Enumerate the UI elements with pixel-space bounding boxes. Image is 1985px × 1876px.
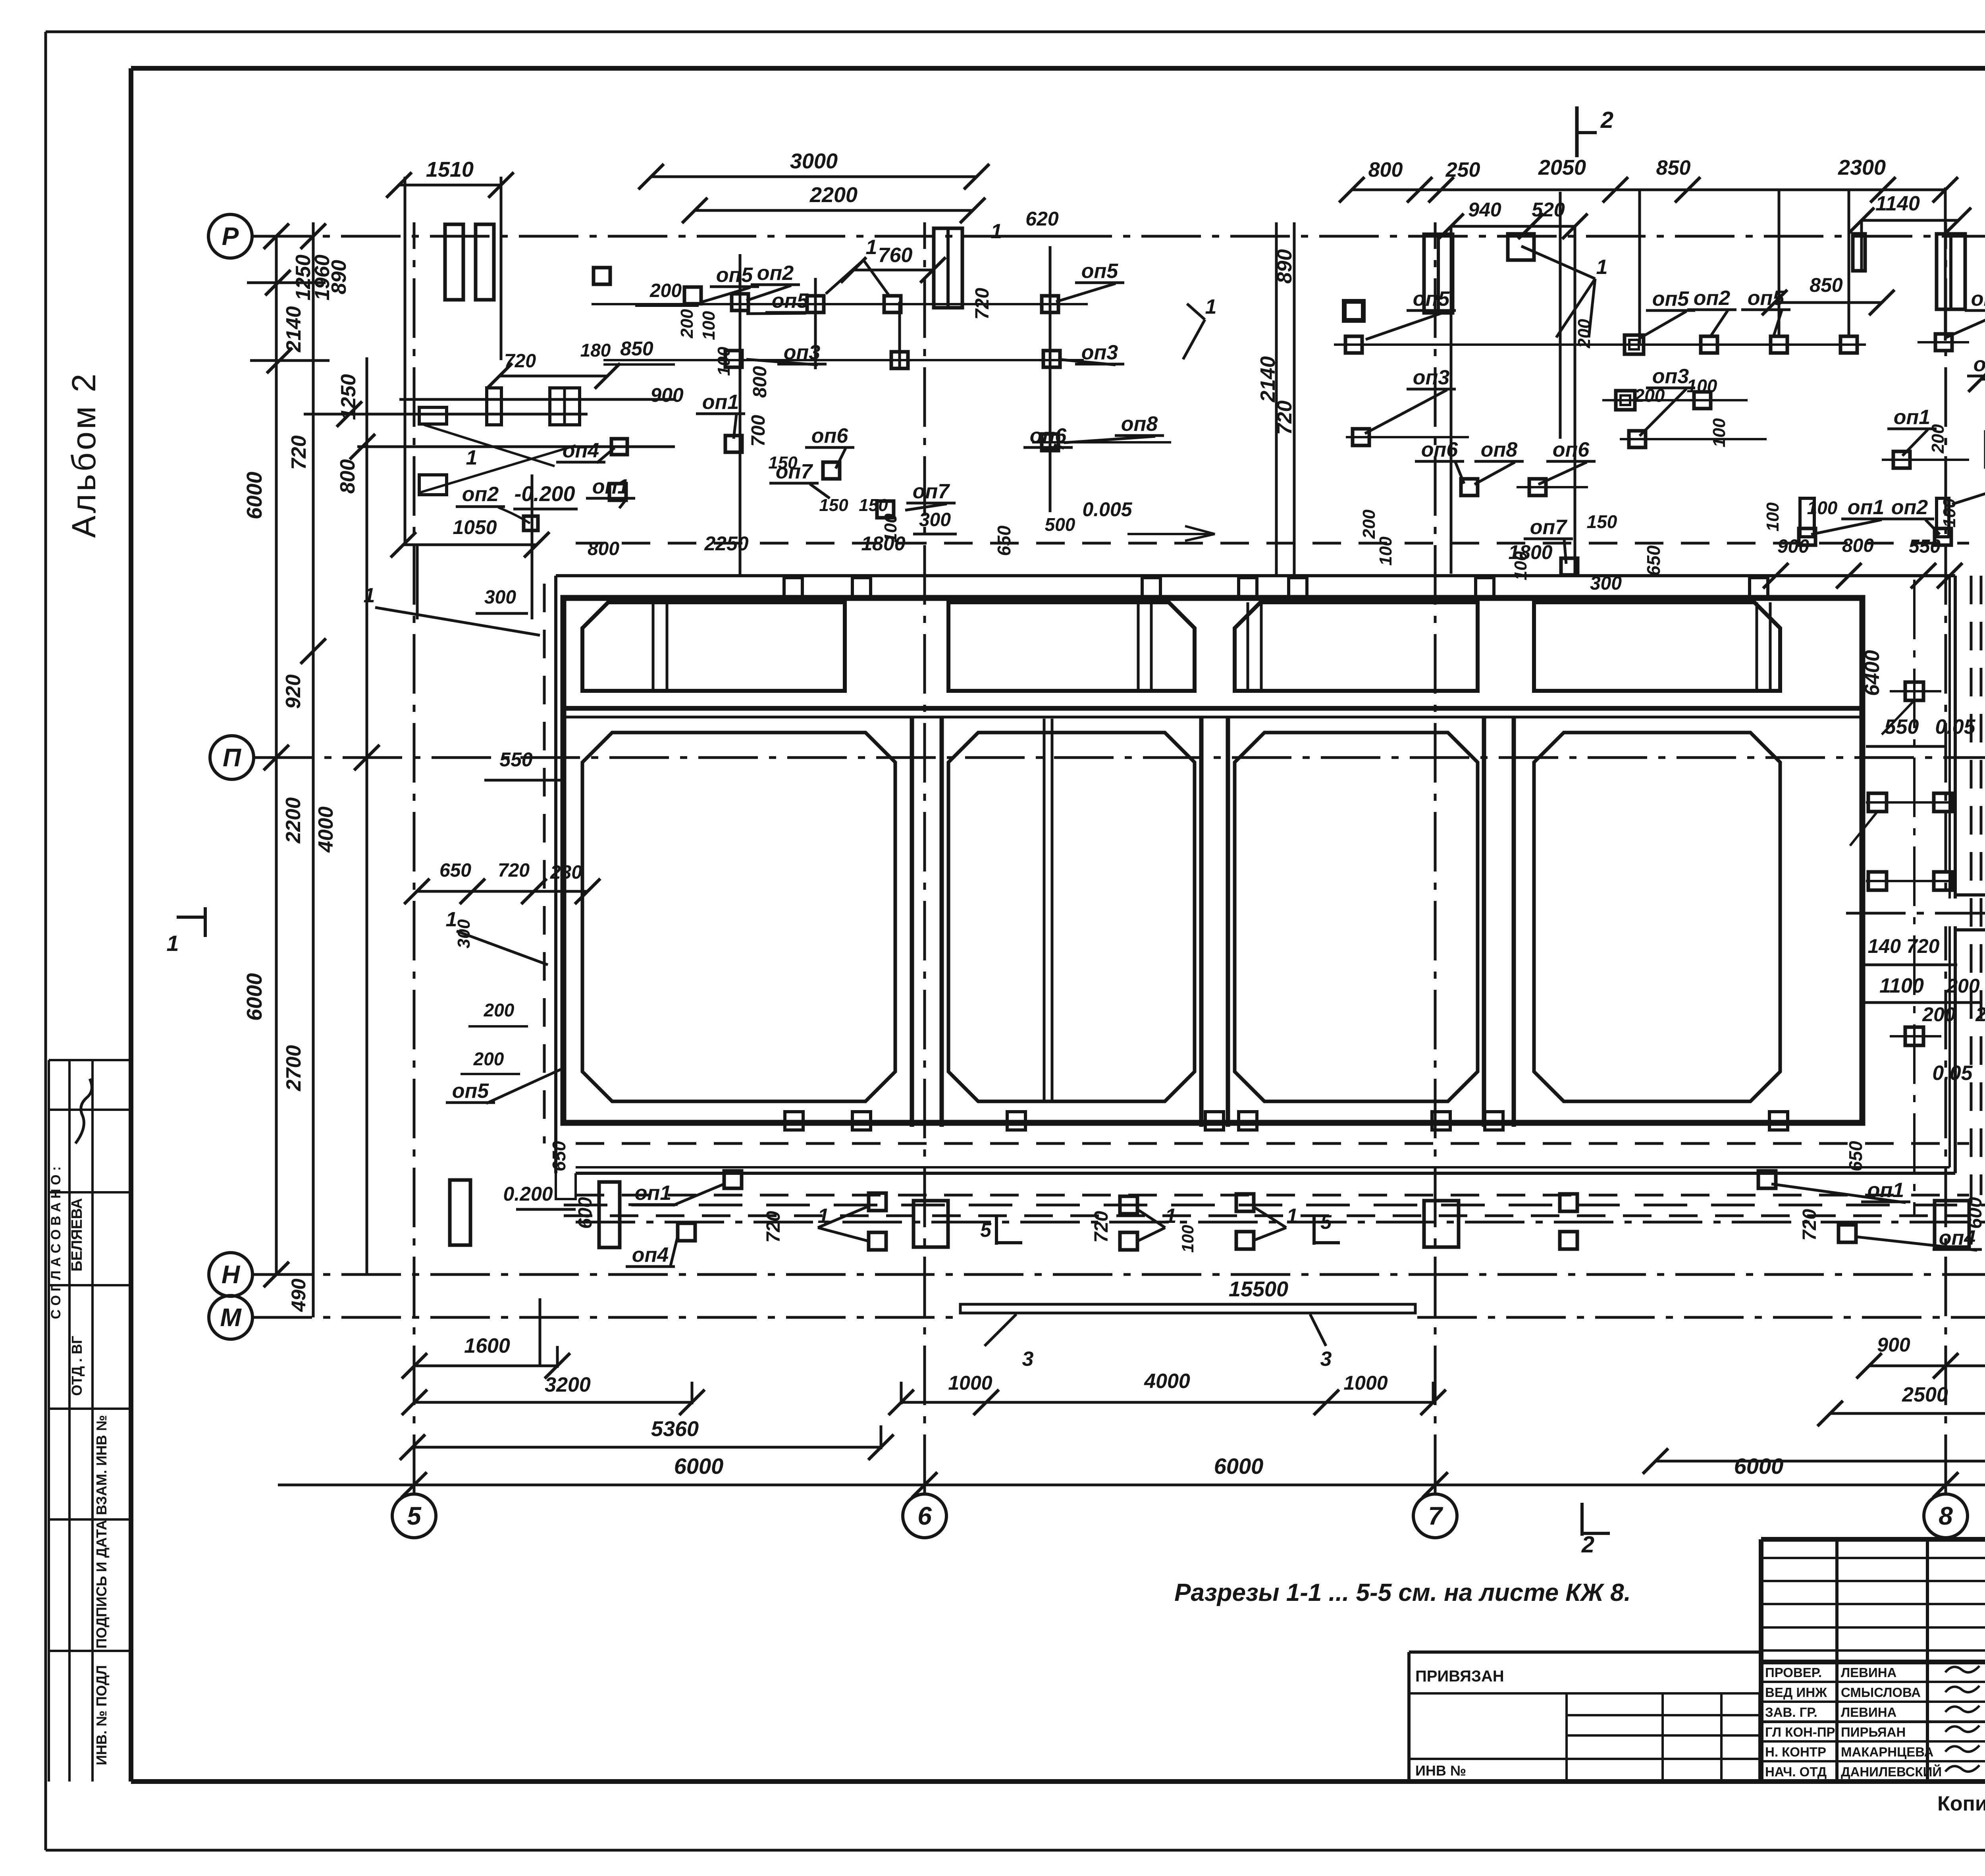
svg-text:1: 1 (364, 584, 375, 607)
svg-text:180: 180 (580, 340, 611, 361)
svg-text:ПРИВЯЗАН: ПРИВЯЗАН (1415, 1668, 1504, 1685)
svg-text:700: 700 (748, 415, 769, 447)
svg-text:850: 850 (1810, 274, 1843, 296)
svg-text:720: 720 (287, 436, 310, 470)
svg-text:1510: 1510 (426, 158, 474, 181)
svg-text:100: 100 (1687, 376, 1717, 396)
svg-text:6000: 6000 (243, 472, 266, 519)
svg-text:720: 720 (1091, 1211, 1112, 1243)
svg-text:200: 200 (1922, 1003, 1956, 1026)
svg-text:ВЗАМ. ИНВ №: ВЗАМ. ИНВ № (93, 1415, 110, 1515)
svg-text:1800: 1800 (1508, 541, 1552, 563)
svg-text:200: 200 (1928, 424, 1948, 454)
svg-text:100: 100 (1178, 1225, 1197, 1253)
svg-text:150: 150 (768, 453, 798, 472)
svg-text:0.05: 0.05 (1932, 1062, 1973, 1085)
svg-text:150: 150 (1587, 511, 1617, 532)
svg-text:оп4: оп4 (632, 1244, 669, 1267)
svg-text:250: 250 (1445, 158, 1480, 181)
svg-text:П: П (223, 743, 242, 772)
svg-text:2250: 2250 (704, 532, 748, 555)
svg-text:ИНВ. № ПОДЛ: ИНВ. № ПОДЛ (93, 1665, 110, 1765)
svg-text:100: 100 (1709, 418, 1729, 447)
svg-text:оп2: оп2 (1694, 287, 1731, 310)
svg-text:оп1: оп1 (1894, 406, 1930, 429)
svg-text:720: 720 (498, 860, 530, 881)
svg-text:ДАНИЛЕВСКИЙ: ДАНИЛЕВСКИЙ (1841, 1764, 1942, 1779)
svg-text:620: 620 (1025, 208, 1059, 230)
svg-text:850: 850 (1656, 156, 1691, 179)
svg-text:оп7: оп7 (1530, 516, 1568, 539)
svg-text:800: 800 (336, 459, 359, 494)
svg-text:200: 200 (1975, 1003, 1985, 1026)
svg-text:оп8: оп8 (1481, 438, 1518, 461)
svg-text:1: 1 (1205, 295, 1217, 318)
svg-text:720: 720 (763, 1211, 784, 1243)
svg-text:оп6: оп6 (1030, 424, 1067, 447)
svg-text:2500: 2500 (1902, 1383, 1948, 1406)
svg-text:оп5: оп5 (452, 1080, 490, 1103)
svg-text:оп5: оп5 (772, 289, 809, 312)
svg-text:0.05: 0.05 (1935, 715, 1975, 738)
svg-text:оп3: оп3 (1652, 365, 1689, 388)
svg-text:Альбом 2: Альбом 2 (65, 371, 102, 538)
svg-text:300: 300 (1590, 573, 1622, 594)
svg-text:1000: 1000 (1343, 1372, 1388, 1394)
svg-text:800: 800 (750, 366, 771, 398)
svg-text:оп1: оп1 (635, 1182, 671, 1205)
svg-text:1: 1 (991, 220, 1002, 243)
svg-text:оп6: оп6 (1421, 438, 1459, 461)
svg-text:1: 1 (1287, 1205, 1298, 1228)
svg-text:Н. КОНТР: Н. КОНТР (1765, 1745, 1826, 1759)
svg-text:МАКАРНЦЕВА: МАКАРНЦЕВА (1841, 1745, 1933, 1759)
svg-text:3000: 3000 (790, 149, 838, 173)
svg-text:6000: 6000 (1214, 1454, 1264, 1479)
svg-text:1800: 1800 (861, 532, 905, 555)
svg-text:300: 300 (454, 919, 474, 949)
svg-text:600: 600 (575, 1197, 596, 1229)
svg-text:СМЫСЛОВА: СМЫСЛОВА (1841, 1685, 1921, 1700)
svg-text:6000: 6000 (243, 973, 266, 1021)
svg-text:Н: Н (222, 1260, 241, 1289)
svg-text:890: 890 (328, 260, 351, 295)
svg-text:8: 8 (1939, 1502, 1953, 1530)
svg-text:550: 550 (1885, 715, 1919, 738)
svg-text:ИНВ №: ИНВ № (1415, 1762, 1466, 1779)
svg-text:2: 2 (1600, 107, 1613, 133)
svg-text:2200: 2200 (282, 797, 305, 844)
svg-text:С О Г Л А С О В А Н О :: С О Г Л А С О В А Н О : (48, 1166, 64, 1319)
svg-text:1: 1 (166, 931, 179, 956)
svg-text:5360: 5360 (651, 1417, 699, 1441)
svg-text:Р: Р (222, 222, 239, 251)
svg-text:0.005: 0.005 (1082, 498, 1132, 521)
svg-text:ПОДПИСЬ И ДАТА: ПОДПИСЬ И ДАТА (93, 1520, 110, 1648)
svg-text:200: 200 (649, 280, 682, 301)
svg-text:150: 150 (819, 496, 848, 515)
svg-text:100: 100 (1807, 497, 1838, 518)
svg-text:200: 200 (473, 1049, 504, 1069)
svg-text:300: 300 (484, 587, 516, 608)
svg-text:490: 490 (287, 1278, 310, 1312)
svg-text:1000: 1000 (948, 1372, 992, 1394)
svg-text:100: 100 (1376, 536, 1395, 566)
svg-text:Копировал: Коршунова: Копировал: Коршунова (1937, 1792, 1985, 1815)
svg-text:6000: 6000 (1734, 1454, 1784, 1479)
svg-text:1: 1 (466, 446, 478, 469)
svg-text:оп4: оп4 (563, 439, 599, 462)
svg-text:800: 800 (1368, 158, 1403, 181)
svg-text:100: 100 (1763, 502, 1783, 532)
svg-text:оп1: оп1 (1848, 496, 1884, 519)
svg-text:5: 5 (1320, 1211, 1332, 1233)
svg-text:1: 1 (1165, 1205, 1177, 1228)
svg-text:650: 650 (1845, 1141, 1866, 1171)
svg-text:ЛЕВИНА: ЛЕВИНА (1841, 1705, 1896, 1720)
svg-text:550: 550 (1909, 536, 1941, 557)
svg-text:200: 200 (1946, 975, 1980, 997)
svg-text:940: 940 (1468, 199, 1501, 221)
svg-text:оп6: оп6 (811, 424, 849, 447)
svg-text:4000: 4000 (314, 806, 337, 853)
svg-text:2: 2 (1581, 1532, 1594, 1558)
svg-text:200: 200 (484, 1000, 515, 1020)
svg-text:800: 800 (1842, 535, 1874, 556)
svg-text:1: 1 (1596, 256, 1608, 279)
svg-text:850: 850 (620, 337, 653, 360)
svg-text:650: 650 (549, 1141, 569, 1171)
svg-text:720: 720 (1799, 1209, 1820, 1241)
svg-text:оп6: оп6 (1553, 438, 1590, 461)
svg-text:300: 300 (919, 509, 951, 530)
svg-text:оп4: оп4 (1973, 353, 1985, 376)
svg-text:3: 3 (1022, 1348, 1034, 1371)
svg-text:550: 550 (499, 748, 533, 771)
svg-text:оп3: оп3 (1081, 341, 1118, 364)
svg-text:650: 650 (439, 860, 471, 881)
svg-text:900: 900 (1777, 536, 1809, 557)
svg-text:100: 100 (714, 347, 734, 376)
svg-text:6: 6 (917, 1502, 932, 1530)
svg-text:оп2: оп2 (757, 262, 794, 285)
svg-text:2140: 2140 (282, 306, 305, 353)
svg-text:4000: 4000 (1144, 1370, 1190, 1393)
svg-text:оп8: оп8 (1121, 413, 1158, 436)
svg-text:900: 900 (650, 384, 684, 406)
svg-text:оп5: оп5 (1413, 287, 1450, 310)
svg-text:ГЛ КОН-ПР: ГЛ КОН-ПР (1765, 1725, 1835, 1739)
svg-text:2050: 2050 (1538, 156, 1586, 179)
svg-text:оп7: оп7 (913, 480, 950, 503)
svg-text:оп1: оп1 (702, 391, 739, 414)
svg-text:оп2: оп2 (1971, 287, 1985, 310)
svg-text:оп5: оп5 (716, 264, 754, 287)
svg-text:1140: 1140 (1875, 192, 1920, 215)
svg-text:оп3: оп3 (1413, 366, 1450, 389)
svg-text:900: 900 (1877, 1334, 1910, 1356)
svg-text:3200: 3200 (545, 1373, 591, 1396)
svg-text:140 720: 140 720 (1868, 935, 1940, 957)
svg-text:200: 200 (677, 309, 697, 339)
svg-text:оп5: оп5 (1081, 260, 1119, 283)
svg-text:15500: 15500 (1229, 1277, 1288, 1301)
svg-text:2200: 2200 (809, 183, 858, 207)
svg-text:3: 3 (1320, 1348, 1332, 1371)
svg-text:2700: 2700 (282, 1045, 305, 1091)
svg-text:-0.200: -0.200 (514, 482, 575, 506)
svg-text:7: 7 (1428, 1502, 1443, 1530)
svg-text:Разрезы 1-1 ... 5-5 см. на: Разрезы 1-1 ... 5-5 см. на листе КЖ 8. (1174, 1579, 1631, 1606)
svg-text:ОТД . ВГ: ОТД . ВГ (69, 1336, 85, 1396)
svg-text:200: 200 (1359, 509, 1379, 539)
svg-text:1600: 1600 (464, 1334, 510, 1357)
svg-text:2300: 2300 (1838, 156, 1886, 179)
svg-text:ПИРЬЯАН: ПИРЬЯАН (1841, 1725, 1906, 1739)
svg-text:800: 800 (588, 538, 619, 559)
svg-text:БЕЛЯЕВА: БЕЛЯЕВА (69, 1198, 85, 1272)
svg-text:760: 760 (878, 244, 913, 267)
svg-text:100: 100 (699, 311, 719, 340)
svg-text:650: 650 (994, 525, 1014, 556)
svg-text:0.200: 0.200 (503, 1183, 553, 1205)
svg-text:200: 200 (1634, 385, 1665, 406)
svg-text:оп2: оп2 (1891, 496, 1928, 519)
svg-text:ВЕД ИНЖ: ВЕД ИНЖ (1765, 1685, 1827, 1700)
svg-text:500: 500 (1045, 514, 1075, 535)
svg-text:1700: 1700 (1983, 1211, 1985, 1255)
svg-text:920: 920 (282, 675, 305, 709)
svg-text:оп2: оп2 (462, 483, 499, 506)
svg-text:1100: 1100 (1879, 974, 1924, 997)
svg-text:650: 650 (1643, 545, 1664, 576)
svg-text:оп5: оп5 (1652, 287, 1690, 310)
svg-text:230: 230 (550, 862, 582, 883)
svg-text:6000: 6000 (674, 1454, 724, 1479)
svg-text:6400: 6400 (1861, 650, 1884, 696)
svg-text:ЛЕВИНА: ЛЕВИНА (1841, 1665, 1896, 1680)
svg-text:150: 150 (859, 496, 888, 515)
svg-text:НАЧ. ОТД: НАЧ. ОТД (1765, 1764, 1827, 1779)
svg-text:5: 5 (407, 1502, 422, 1530)
svg-text:1050: 1050 (453, 516, 497, 538)
svg-text:1: 1 (866, 236, 877, 259)
svg-text:5: 5 (980, 1219, 992, 1241)
svg-text:ЗАВ. ГР.: ЗАВ. ГР. (1765, 1705, 1817, 1720)
svg-text:720: 720 (972, 288, 993, 320)
svg-text:600: 600 (1965, 1197, 1985, 1229)
svg-text:оп1: оп1 (592, 475, 629, 498)
svg-text:М: М (220, 1303, 242, 1332)
svg-text:ПРОВЕР.: ПРОВЕР. (1765, 1665, 1822, 1680)
